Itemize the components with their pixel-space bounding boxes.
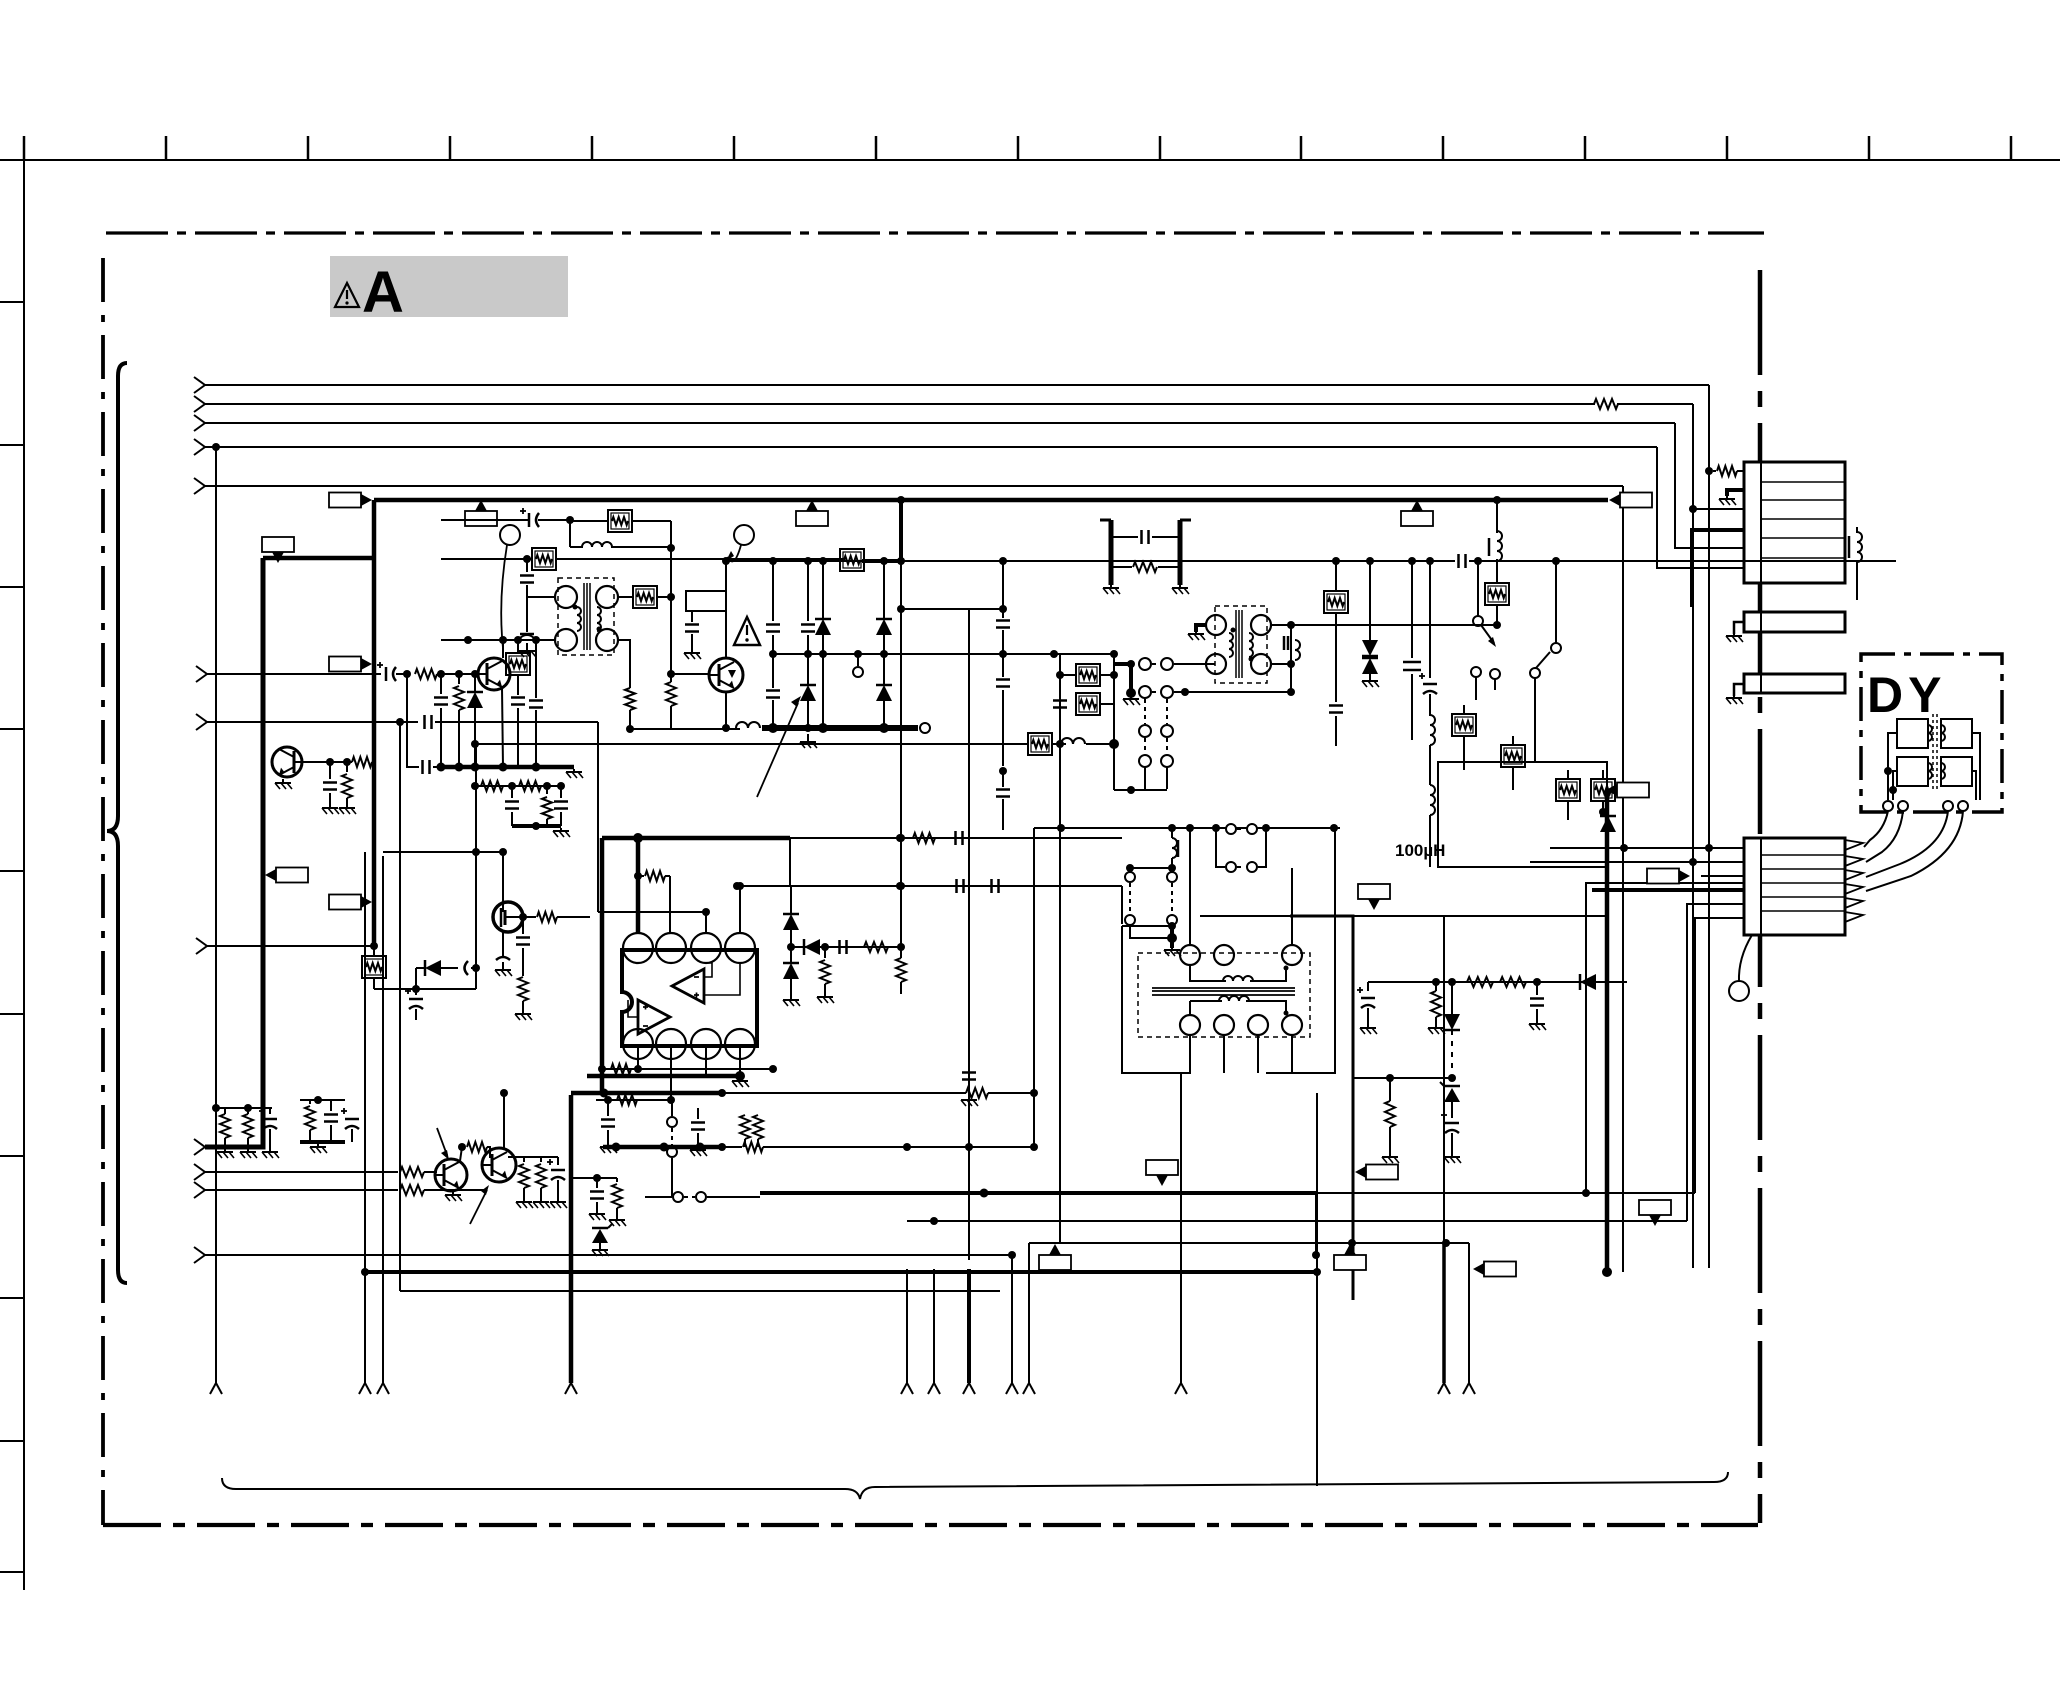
wire thick elbow to bus <box>862 500 901 561</box>
wire row y1078 <box>1353 1077 1452 1079</box>
wire pin3 top <box>705 912 707 932</box>
wire y1221 <box>907 1220 1687 1222</box>
cap + coil right of T602 <box>1283 636 1286 650</box>
MOSFET Q604 <box>493 902 523 932</box>
flag left on x263 <box>265 869 276 881</box>
transformer T602 dashed box <box>1215 606 1267 683</box>
white label box <box>686 591 726 611</box>
wire bus3 drop <box>1675 423 1744 548</box>
wire x969 thick vertical bottom <box>967 1269 971 1383</box>
wire y1243 <box>1029 1242 1469 1244</box>
jumper verticals <box>1144 699 1146 724</box>
wire x1291 <box>1290 625 1292 692</box>
T602 right bottom wire <box>1271 663 1291 665</box>
wire right secondary <box>1535 761 1607 763</box>
gnd y826 <box>560 828 562 831</box>
wire bus6 <box>207 945 374 947</box>
thick row y838 <box>602 836 790 841</box>
wire x1034 <box>1033 1093 1035 1147</box>
cap h y947 <box>838 940 841 954</box>
cap y838 <box>954 831 957 845</box>
T602 right top wire <box>1271 624 1291 626</box>
riser x1687 <box>1687 904 1744 1221</box>
cap col 441 <box>440 674 442 694</box>
ground emitter rail <box>573 769 575 772</box>
cap series on y561 <box>1455 554 1469 568</box>
CN1 row feeds misc <box>1708 470 1710 472</box>
snubber cap <box>1111 536 1138 538</box>
row y1093 thin <box>722 1092 966 1094</box>
arc cap FET <box>496 957 510 960</box>
diode 1452 <box>1451 982 1453 1014</box>
resistor R603 boxed <box>532 548 556 570</box>
cap col 561 <box>560 786 562 798</box>
rectifier cap col 773 <box>772 561 774 621</box>
wire bus y722 <box>207 721 418 723</box>
thick bar y1142 <box>300 1140 345 1144</box>
DY dashed box <box>1861 654 2002 812</box>
snubber ground right <box>1179 585 1181 588</box>
warning banner block A <box>330 256 568 317</box>
diode col 475 <box>474 674 476 692</box>
annotation arrow Q606 <box>470 1190 487 1224</box>
wire Q601 emitter <box>502 688 503 767</box>
diode on y968 <box>425 960 441 976</box>
wire x400 drop <box>399 722 401 1291</box>
wire bus2 vertical continues <box>1692 509 1694 1268</box>
thick row y1093 <box>571 1091 722 1096</box>
res y1100 <box>617 1095 637 1105</box>
flyback top connections <box>1189 828 1191 945</box>
flag up 2 <box>806 500 818 511</box>
warning triangle <box>335 283 359 307</box>
wire Q602 emitter <box>725 692 727 728</box>
gnd C602 <box>691 645 693 653</box>
jumper gnd <box>1129 664 1133 693</box>
sub loop rect <box>1059 654 1061 744</box>
enclosure around flyback <box>1122 925 1172 927</box>
wire main thick bus y500 <box>374 498 1608 503</box>
bus arrow 1 <box>194 377 205 393</box>
cap emitter <box>421 760 424 774</box>
connector CN4 <box>1744 838 1845 935</box>
wire to R602 <box>570 520 608 522</box>
dashed gap <box>1451 1030 1453 1074</box>
res on row 1480 <box>1467 977 1493 987</box>
res col 547b <box>546 786 548 794</box>
cap col 1412 <box>1411 561 1413 658</box>
wire zener up <box>599 1212 601 1226</box>
flyback windings <box>1190 965 1226 981</box>
res on row 1513 <box>1500 977 1526 987</box>
wire bus9b <box>424 1189 484 1191</box>
IC pins bottom <box>623 1029 653 1059</box>
res col 523 <box>518 977 528 1001</box>
wire x1472 vertical <box>1468 1243 1470 1383</box>
arc cap y968 <box>465 961 469 975</box>
100uH area box <box>1438 762 1607 867</box>
res y838 <box>913 833 935 843</box>
flag down right <box>1649 1215 1661 1226</box>
wire row y982 <box>1368 981 1627 983</box>
wire y917 left <box>1200 915 1290 917</box>
flag up 3 <box>1411 500 1423 511</box>
flag left 1355 <box>1355 1166 1366 1178</box>
resistor R605 boxed <box>633 586 657 608</box>
res y786 a <box>481 781 503 791</box>
wire bus2 left <box>205 403 1595 405</box>
resistor box 1464 <box>1452 714 1476 736</box>
wire secondary y561 <box>726 560 1896 562</box>
coil col 1430 a <box>1430 715 1435 745</box>
resistor on bus2 <box>1594 399 1618 409</box>
snubber ground left <box>1110 585 1112 588</box>
zener 1452 <box>1444 1088 1460 1102</box>
snubber thick vertical right <box>1178 520 1183 585</box>
open circle stub <box>857 654 859 666</box>
CN4 mounting wire and hole <box>1739 935 1752 982</box>
wire y968 <box>415 968 417 989</box>
jumper vertical x672 <box>671 1100 673 1116</box>
DY leads to CN4 <box>1864 811 1888 847</box>
wire CN1 pin5 thick <box>1692 530 1744 607</box>
ground at CN1 pin2 <box>1727 490 1744 496</box>
cap col 330 <box>329 762 331 779</box>
res col 459 <box>458 674 460 684</box>
transformer T601 windings <box>577 607 581 631</box>
row y1147 thin <box>722 1146 742 1148</box>
snubber hook left <box>1100 519 1111 522</box>
cap col 1336 <box>1329 704 1343 707</box>
wire y609 <box>901 608 1003 610</box>
cap y886 a <box>955 879 958 893</box>
wire x1029 vertical <box>1028 1243 1030 1383</box>
wire x1060 long <box>1059 744 1061 1243</box>
resistor R604 boxed <box>840 549 864 571</box>
row y886 <box>737 885 1122 887</box>
rail end circle <box>920 723 930 733</box>
bus arrow 10 <box>194 1247 205 1263</box>
cap col 608 <box>607 1100 609 1116</box>
resistor bus8 <box>400 1167 424 1177</box>
snubber thick vertical left <box>1109 520 1114 585</box>
res col 347 <box>346 762 348 772</box>
arc lamp wire <box>501 545 507 648</box>
wire y692 right <box>1185 691 1291 693</box>
res h y947 <box>864 942 888 952</box>
wire bus5 drop <box>1622 486 1624 1272</box>
open terminal row <box>1471 667 1481 677</box>
wire T601 left bottom <box>441 639 555 641</box>
diode col 823 <box>822 561 824 619</box>
ground CN3 <box>1734 684 1744 696</box>
bus arrow 5 <box>194 478 205 494</box>
transistor Q602 IGBT <box>709 658 743 692</box>
connector CN2 <box>1744 612 1845 632</box>
cap col 969 mid <box>968 1060 970 1069</box>
transformer T602 pins <box>1206 615 1226 635</box>
wire Q601 emitter net <box>407 674 419 767</box>
coil col 1430 b <box>1430 785 1435 815</box>
jumper gnd stub <box>1170 926 1174 948</box>
annotation diagonal arrow <box>757 703 798 797</box>
flag up 1056 <box>1049 1244 1061 1255</box>
chain border right <box>1758 270 1763 1523</box>
res col 248 <box>247 1108 249 1114</box>
wire FET source <box>502 931 504 956</box>
res 1390b <box>1385 1101 1395 1127</box>
bus arrow y674 <box>196 666 207 682</box>
wire x1317 vertical <box>1316 1093 1318 1486</box>
coil L620 <box>1061 738 1085 744</box>
row y1147 thick <box>603 1145 722 1150</box>
cap col 536 <box>535 640 537 698</box>
thick emitter rail <box>437 765 574 770</box>
resistor R606 <box>666 682 676 706</box>
resistor box 1513 <box>1501 745 1525 767</box>
cap electrolytic on y674 <box>385 667 388 681</box>
wire x571 thick vertical <box>569 1095 574 1383</box>
cap 1537 <box>1536 982 1538 995</box>
wire x671 down <box>670 548 672 597</box>
coil on rail <box>736 722 760 728</box>
flyback core <box>1152 987 1295 989</box>
wire x969 <box>968 609 970 1260</box>
dual diode col 1370 <box>1369 561 1371 640</box>
jumper block upper <box>1114 662 1131 666</box>
ecap 1368 <box>1367 982 1369 991</box>
cap col 523 <box>522 917 524 934</box>
wire pin4 top <box>739 886 741 932</box>
coil L601 <box>569 520 571 547</box>
riser x1316 <box>1315 1193 1317 1255</box>
transistor Q605 <box>435 1159 467 1191</box>
wire bus5 <box>205 485 1623 487</box>
flag on x374 <box>361 896 372 908</box>
wire to thick <box>372 761 374 763</box>
riser x1695 <box>1695 918 1744 1193</box>
border frame top ruler line <box>0 159 2060 161</box>
bus arrow 9 <box>194 1182 205 1198</box>
diode h y947 <box>804 939 820 955</box>
cap y886 b <box>990 879 993 893</box>
wire label down <box>691 611 693 622</box>
left cluster A <box>212 1104 220 1112</box>
wire bus1 <box>205 384 1709 386</box>
IC U601 body <box>622 950 757 1046</box>
bus arrow y722 <box>196 714 207 730</box>
wire IC pin1 feed thick <box>636 838 641 933</box>
wire pin2 top <box>669 876 671 932</box>
flyback dashed box <box>1138 953 1310 1037</box>
wire x671 to base <box>670 597 672 674</box>
ground on rail <box>807 734 809 742</box>
wire Q601 collector <box>502 640 504 658</box>
coil x1172 <box>1172 838 1177 858</box>
gnd under caps <box>526 643 528 651</box>
res y1147 base <box>462 1146 465 1148</box>
wire row y654 <box>773 653 1114 655</box>
switch lever 1 <box>1473 616 1483 626</box>
res y786 b <box>519 781 541 791</box>
thick x604 <box>600 838 605 1093</box>
res col 617 <box>616 1178 618 1182</box>
IC pins top <box>623 933 653 963</box>
col x901 <box>900 500 902 958</box>
transistor Q603 <box>272 747 302 777</box>
wire Q605 collector <box>460 1147 462 1161</box>
op-amp B <box>638 1000 670 1034</box>
wire y916 right <box>1353 915 1607 917</box>
jumper block lower <box>1139 686 1151 698</box>
lamp circle <box>500 525 520 545</box>
svg-text:A: A <box>362 260 404 325</box>
res col 225b <box>224 1108 226 1112</box>
cap col 331 <box>330 1100 332 1111</box>
resistor R622 boxed <box>1076 693 1100 715</box>
jumper bottom bar <box>1114 789 1167 791</box>
cap col 512 <box>511 786 513 798</box>
flyback top pins <box>1180 945 1200 965</box>
T602 left bottom wire <box>1206 663 1215 665</box>
row y1157 <box>508 1156 558 1158</box>
cap x1003 low <box>996 788 1010 791</box>
wire bottom rail thin <box>630 728 740 730</box>
wire y559 <box>441 558 532 560</box>
wire bottom y1291 <box>400 1290 1000 1292</box>
bus arrow 6 <box>196 938 207 954</box>
flyback bottom connections <box>1189 1035 1191 1073</box>
snubber resistor <box>1111 566 1132 568</box>
wire bus2 drop <box>1693 404 1744 509</box>
wire pin5 bottom <box>637 1046 639 1069</box>
wire thick horiz y558 <box>263 556 374 561</box>
resistor to CN1 pin1 <box>1713 470 1716 472</box>
border frame left ruler ticks <box>0 301 24 303</box>
flag down on y558 <box>272 552 284 563</box>
wire x1034 riser <box>1033 828 1035 1093</box>
wire y912 row <box>598 911 706 913</box>
res col 541 <box>540 1157 542 1162</box>
res 1436 <box>1431 991 1441 1017</box>
cap on y722 <box>423 715 426 729</box>
thick bar y826 <box>512 824 561 828</box>
wire Q603 base row <box>295 761 352 763</box>
wire y989 <box>374 988 476 990</box>
coil x1497 <box>1496 500 1498 533</box>
annotation arrow Q605 <box>437 1128 447 1155</box>
diode col 790 <box>790 886 792 914</box>
wire C601 right <box>538 519 570 521</box>
ground Q605 <box>452 1192 454 1195</box>
wire x1444 vertical <box>1443 916 1445 1243</box>
wire R602 down <box>670 521 672 548</box>
diode col 884 top <box>883 561 885 619</box>
bus arrow 2 <box>194 396 205 412</box>
res box x1497 <box>1485 583 1509 605</box>
switch wire col 1556 <box>1555 561 1557 643</box>
svg-text:DY: DY <box>1867 667 1946 723</box>
deflection yoke coil V rects <box>1897 757 1928 786</box>
res y876 <box>634 872 642 880</box>
transformer T602 core <box>1235 610 1237 678</box>
jumper loop right <box>1226 824 1236 834</box>
cap col 597 <box>596 1178 598 1188</box>
wire x790 drop <box>789 838 791 886</box>
coil x1857 <box>1856 527 1858 533</box>
thin row y838 right <box>790 837 1122 839</box>
bus arrow 3 <box>194 415 205 431</box>
transformer T601 core <box>583 583 585 650</box>
wire x1114 down <box>1113 744 1115 790</box>
cap under R603 <box>526 559 528 572</box>
wire x365 vertical <box>364 852 366 1383</box>
res col 745 <box>740 1115 750 1139</box>
wire y890 thick <box>1592 888 1744 892</box>
annotation curve <box>726 545 741 561</box>
left brace <box>107 363 127 1283</box>
cap col 1003 <box>1002 561 1004 618</box>
ecap col 270 <box>269 1108 271 1114</box>
CN4 wedge pins <box>1845 840 1863 850</box>
wire Q602 collector <box>725 561 727 658</box>
flyback bottom pins <box>1180 1015 1200 1035</box>
jumper horizontal <box>645 1196 672 1198</box>
wire y852 <box>383 851 503 853</box>
flag up 1 <box>475 500 487 511</box>
chain border left <box>101 258 105 1525</box>
flag up 1352 <box>1344 1244 1356 1255</box>
wire bus8b <box>424 1171 437 1173</box>
diode col 808 <box>800 685 816 701</box>
wire x1012 vertical <box>1011 1255 1013 1383</box>
flag down x1372 <box>1368 899 1380 910</box>
flag down 1162 <box>1156 1175 1168 1186</box>
wire x1122 to enclosure <box>1121 886 1123 924</box>
riser x1586 <box>1586 883 1744 1193</box>
wire x383 vertical <box>382 856 384 1383</box>
lamp circle 2 <box>734 525 754 545</box>
switch wire col 1478 <box>1477 561 1479 616</box>
wire thick vertical x374 <box>372 500 377 946</box>
flag left x1607 <box>1606 784 1617 796</box>
connector CN3 <box>1744 674 1845 693</box>
wire bus10 <box>205 1254 1012 1256</box>
res y1093 <box>966 1088 988 1098</box>
cap col 518 <box>511 696 525 699</box>
warning triangle small <box>734 617 760 645</box>
snubber hook right <box>1180 519 1191 522</box>
T602 left top gnd <box>1196 625 1206 632</box>
border frame top ruler ticks <box>23 136 26 160</box>
res y1147 <box>743 1142 763 1152</box>
sub row y786 <box>475 785 561 787</box>
wire x598 drop <box>597 722 599 912</box>
wire row y828 <box>1034 827 1340 829</box>
wire T601 to R605 <box>618 596 633 598</box>
cap col 698 <box>697 1100 699 1118</box>
transistor Q601 <box>478 658 510 690</box>
wire FET drain <box>502 852 504 903</box>
wire T601 bottom right <box>618 640 630 688</box>
flag left 1473 <box>1473 1263 1484 1275</box>
DY pins <box>1883 801 1893 811</box>
wire bus y674 <box>207 673 381 675</box>
wire bus9 <box>205 1189 398 1191</box>
resistor base Q601 <box>415 669 437 679</box>
wire y1193 thick <box>760 1191 1316 1195</box>
wire bottom rail thick <box>762 725 918 731</box>
